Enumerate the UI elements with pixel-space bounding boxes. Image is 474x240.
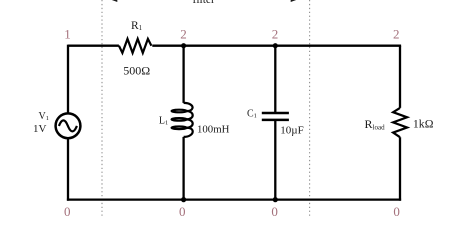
svg-text:0: 0 [179,204,186,219]
svg-text:1kΩ: 1kΩ [413,117,434,131]
svg-text:1V: 1V [33,123,47,135]
svg-text:2: 2 [272,26,279,41]
svg-text:1: 1 [64,26,71,41]
svg-text:C1: C1 [247,109,257,120]
svg-text:500Ω: 500Ω [123,64,150,78]
svg-text:10µF: 10µF [280,125,303,137]
svg-text:0: 0 [271,204,278,219]
svg-text:100mH: 100mH [197,124,230,136]
svg-text:V1: V1 [39,111,49,122]
svg-text:2: 2 [393,26,400,41]
svg-text:0: 0 [393,204,400,219]
svg-text:filter: filter [193,0,216,6]
svg-text:R1: R1 [131,20,143,32]
svg-text:2: 2 [180,26,187,41]
svg-text:Rload: Rload [365,117,386,131]
svg-text:0: 0 [64,204,71,219]
svg-text:L1: L1 [159,115,168,126]
